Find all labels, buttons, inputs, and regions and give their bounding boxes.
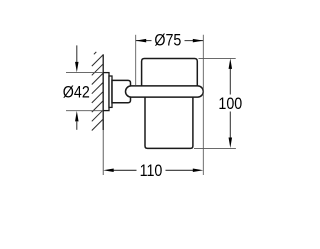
dim 100 dimension line upper segment: [229, 69, 231, 95]
svg-text:110: 110: [140, 162, 163, 180]
glass body (below ring): [145, 97, 193, 149]
dim 110 right arrow (pointing right): [193, 169, 204, 173]
dim 110 dimension line left segment: [114, 169, 137, 171]
wall face line: [102, 54, 104, 130]
wall hatching: [92, 52, 103, 131]
rosette middle step: [109, 76, 112, 107]
dim 100 top extension line: [199, 57, 236, 59]
dim 100 bottom arrow (pointing down): [229, 138, 233, 149]
wall face extension line (left extension of 110 dim): [102, 130, 104, 175]
dim Ø42 top extension line: [66, 72, 103, 74]
dim 100 bottom extension line: [194, 147, 236, 149]
dim Ø42 bottom arrow (pointing up): [75, 111, 79, 122]
dim Ø42 dimension line top segment: [76, 45, 78, 62]
dim 110 left arrow (pointing left): [103, 169, 114, 173]
dim Ø42 top arrow (pointing down): [75, 62, 79, 73]
svg-text:Ø75: Ø75: [154, 32, 181, 50]
svg-text:100: 100: [218, 95, 242, 113]
dim Ø75 / 110 right extension line: [202, 35, 204, 175]
dim Ø75 dimension line: [136, 40, 152, 42]
dim Ø42 dimension line bottom segment: [76, 121, 78, 129]
dim 100 top arrow (pointing up): [229, 58, 233, 69]
dim Ø42 bottom extension line: [66, 110, 103, 112]
rosette outer flange (Ø42 side view): [103, 73, 109, 111]
dim Ø75 left arrow: [136, 39, 147, 43]
holder ring (side view capsule): [126, 86, 204, 97]
dim Ø75 right arrow: [193, 39, 204, 43]
dim 110 dimension line right segment: [166, 169, 194, 171]
holder arm block: [112, 80, 131, 102]
svg-text:Ø42: Ø42: [63, 83, 90, 101]
dim Ø75 left extension line: [135, 35, 137, 86]
dim 100 dimension line lower segment: [229, 112, 231, 138]
glass rim (upper part above ring): [142, 59, 198, 88]
